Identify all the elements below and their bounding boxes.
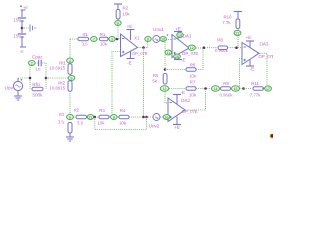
rt3 bottom lead [69,133,71,137]
op-amp DA2 [168,98,185,122]
battery V1 [18,18,26,21]
meter Unv2 [153,114,160,121]
top tick bar [21,9,26,11]
wire R3 to R4 [109,116,119,118]
svg-text:10: 10 [161,37,165,41]
junction around-wire left [94,116,97,119]
junction DA3 plus tap [242,87,245,90]
svg-text:+E: +E [127,24,133,29]
svg-text:+E: +E [175,27,181,32]
DA2 vee stub [176,95,178,105]
svg-text:R7: R7 [190,80,196,85]
svg-text:0.966k: 0.966k [215,48,229,53]
wire X1 output [138,47,148,49]
+E rail R10 [234,11,242,13]
wire DA3 output riser [260,53,268,86]
svg-text:+E: +E [246,35,252,40]
R2 top lead [117,4,119,10]
meter Unv1 [153,36,160,43]
node 11 [165,50,171,55]
wire R5 bottom to DA2 minus [165,92,168,104]
svg-text:R4: R4 [120,108,126,113]
node 19 [177,33,184,38]
svg-text:8: 8 [117,21,119,25]
wire Rt col top [69,39,71,64]
svg-text:3.5: 3.5 [58,120,65,125]
junction X1 riser bottom [142,116,145,119]
resistor R7 [186,87,196,91]
svg-text:R1: R1 [100,32,106,37]
bottom tick bar [20,46,26,48]
+E rail DA2 [173,124,181,126]
svg-text:12: 12 [190,46,194,50]
-E rail X1 [127,58,135,60]
resistor R2 [116,10,120,20]
svg-text:-E: -E [181,90,186,95]
svg-text:OP_07E: OP_07E [259,54,274,59]
wire node A vertical [29,63,31,89]
svg-text:10k: 10k [189,74,197,79]
+E rail DA3 [246,40,254,42]
svg-text:X1: X1 [134,36,140,41]
svg-text:9: 9 [147,37,149,41]
resistor R9 [221,87,231,91]
svg-text:R5: R5 [153,73,159,78]
wire R6 riser to DA1 out [196,48,203,70]
svg-text:R3: R3 [99,108,105,113]
-E rail DA1 [174,59,182,61]
svg-text:7.7k: 7.7k [222,20,231,25]
svg-text:19: 19 [178,33,182,37]
source top lead [17,78,19,81]
wire col to rt1 [70,38,78,40]
junction DA2 output tap [204,87,207,90]
svg-text:R6: R6 [190,63,196,68]
wire R11 right [262,88,266,90]
wire DA1 output [190,47,205,49]
wire DA3 plus riser [240,59,243,89]
svg-text:Unv1: Unv1 [153,27,164,32]
junction battery midpoint [21,27,24,30]
svg-text:500k: 500k [33,93,44,98]
svg-text:10k: 10k [97,121,105,126]
wire rt1-R1 [89,38,100,40]
wire node B vertical [45,63,47,89]
resistor Rt2 [68,81,72,91]
battery V2 lead [21,21,23,33]
svg-text:5: 5 [71,76,73,80]
svg-text:4: 4 [69,59,71,63]
node 2 [29,61,36,66]
DA3 vcc stub [249,41,251,48]
X1 vcc stub [130,30,132,41]
node 21 [87,115,93,120]
node 13 [160,86,168,92]
wire R5 column top riser [164,42,166,70]
junction R10 tap [235,46,238,49]
-E rail DA2 [173,94,181,96]
node 8b [111,115,118,120]
wire around bottom [95,117,147,130]
+E rail DA1 [174,31,182,33]
resistor R3 [99,115,109,119]
resistor R8 [218,46,228,50]
svg-text:3.5: 3.5 [77,121,84,126]
node 20 [174,54,181,59]
svg-text:rt3: rt3 [59,112,65,117]
svg-text:21: 21 [89,115,93,119]
svg-text:6: 6 [69,115,71,119]
wire Rt col bottom [69,91,71,114]
+E rail R2 [114,3,122,5]
junction DA1 output [203,46,206,49]
svg-text:3.5: 3.5 [81,42,88,47]
svg-text:-E: -E [181,58,186,63]
wire to sideways ground [22,27,29,29]
wire cap right [42,62,46,64]
source bottom lead [17,91,19,96]
node 15 [232,86,240,92]
ground bottom [66,137,74,141]
-E rail DA3 [246,65,254,67]
wire bridge mid [46,77,68,79]
wire Unv1 to DA1 [160,38,166,40]
svg-text:R9: R9 [223,81,229,86]
svg-text:Unv2: Unv2 [149,124,160,129]
X1 vee stub [130,52,132,59]
node 6 [67,114,74,119]
svg-text:+E: +E [23,5,28,10]
junction X1 output [142,46,145,49]
resistor R5 [163,74,167,85]
wire node to R11 [240,88,253,90]
wire Unv2 to DA2 plus [160,116,168,118]
battery V2 [18,34,26,37]
svg-text:3: 3 [111,37,113,41]
svg-text:7: 7 [93,37,95,41]
wire to R7 [169,88,186,90]
svg-text:0.966k: 0.966k [220,93,234,98]
wire X1 plus input riser [112,52,121,115]
svg-text:R2: R2 [123,6,129,11]
svg-text:2: 2 [31,61,33,65]
svg-text:10k: 10k [189,93,197,98]
svg-text:OP_07E: OP_07E [182,109,198,114]
DA3 vee stub [249,59,251,66]
svg-text:14: 14 [214,87,218,91]
resistor Rt1 [68,64,72,74]
svg-text:20: 20 [175,55,179,59]
svg-text:Rhz: Rhz [32,82,41,87]
svg-text:R11: R11 [251,81,259,86]
wire to R6 [165,69,186,71]
svg-text:11: 11 [166,51,170,55]
resistor rt2 [76,115,87,119]
wire R2 to rail [117,19,119,39]
node 12 [188,45,195,50]
svg-text:Uov: Uov [4,86,13,92]
resistor rt3 [68,123,72,134]
node 14 [212,86,220,92]
ground sideways [30,25,35,32]
DA1 vee stub [177,54,179,60]
node 4 [67,58,74,63]
svg-text:15v: 15v [13,34,21,39]
svg-text:16: 16 [165,115,169,119]
svg-text:13: 13 [163,87,167,91]
op-amp DA3 [242,43,259,65]
svg-text:15: 15 [234,87,238,91]
junction around-wire right [145,116,148,119]
resistor rt1 [78,37,89,41]
svg-text:15v: 15v [13,18,21,23]
wire into DA1 minus [166,39,172,41]
wire rt2 to R3 [87,116,100,118]
node 8 [115,21,121,26]
svg-text:rt2: rt2 [74,108,80,113]
wire R1 to X1 [108,38,121,40]
svg-text:1n: 1n [36,67,41,72]
marker blob bottom-right [270,134,274,138]
node 7 [91,37,97,42]
battery V1 lead [21,10,23,17]
junction node A [29,77,32,80]
svg-text:8: 8 [113,115,115,119]
capacitor Cpar [39,60,42,66]
junction R5 top [164,68,167,71]
junction node B [45,77,48,80]
resistor R10 [236,19,240,29]
svg-text:10k: 10k [119,121,127,126]
svg-text:OP_07B: OP_07B [132,51,148,56]
ground under source [14,96,22,100]
svg-text:DA2: DA2 [181,98,190,103]
svg-text:10.8915: 10.8915 [49,86,65,91]
resistor R6 [186,68,196,72]
wire R4 to Unv2 [129,116,153,118]
svg-text:rt1: rt1 [82,32,88,37]
op-amp DA1 [172,35,189,58]
svg-text:OP_07E: OP_07E [182,51,198,56]
node 17 [265,86,272,91]
wire oval to Unv1 [151,38,153,40]
wire R10 down [237,29,239,48]
battery V2 lead2 [21,37,23,47]
wire riser to Unv1 [147,39,149,48]
svg-text:10k: 10k [100,42,108,47]
node 10 [160,37,166,42]
wire DA1 plus input [165,52,172,54]
wire R7 to node [196,88,212,90]
wire X1 output long riser [143,48,145,118]
wire DA2 output riser [186,89,206,111]
source Uov [13,79,22,91]
wire to R8 [207,47,218,49]
node 9 [145,37,151,42]
wire R8 to DA3 [228,47,243,49]
+E flag top-left [20,5,28,10]
wire source to node A [18,77,30,79]
R10 top lead [237,12,239,20]
svg-text:DA1: DA1 [183,34,192,39]
polarity tick Unv1 [167,34,169,36]
wire cap left [33,62,38,64]
svg-text:+E: +E [174,125,180,130]
svg-text:10.6915: 10.6915 [49,66,65,71]
svg-text:R10: R10 [223,15,232,20]
wire col to rt2 [74,116,77,118]
node 5 [68,76,75,81]
resistor R4 [119,115,129,119]
svg-text:-E: -E [250,67,255,72]
DA1 vcc stub [177,32,179,40]
svg-text:DA3: DA3 [260,42,269,47]
svg-text:-E: -E [20,49,24,54]
svg-text:10k: 10k [123,12,131,17]
svg-text:R8: R8 [217,38,223,43]
node 22 [234,30,241,35]
node 16 [163,115,170,120]
resistor Rhz [32,87,43,91]
svg-text:Cpar: Cpar [32,55,42,60]
wire Rt mid [69,74,71,81]
resistor R11 [253,87,264,91]
svg-text:5k: 5k [152,79,157,84]
svg-text:22: 22 [236,31,240,35]
svg-text:-E: -E [127,61,132,66]
svg-text:17: 17 [266,87,270,91]
DA2 vcc stub [176,117,178,125]
+E rail X1 [127,29,135,31]
node 3 [109,37,115,42]
junction R2 tap [116,38,119,41]
op-amp X1 [121,34,138,57]
svg-text:7.77k: 7.77k [250,93,261,98]
resistor R1 [100,37,109,41]
